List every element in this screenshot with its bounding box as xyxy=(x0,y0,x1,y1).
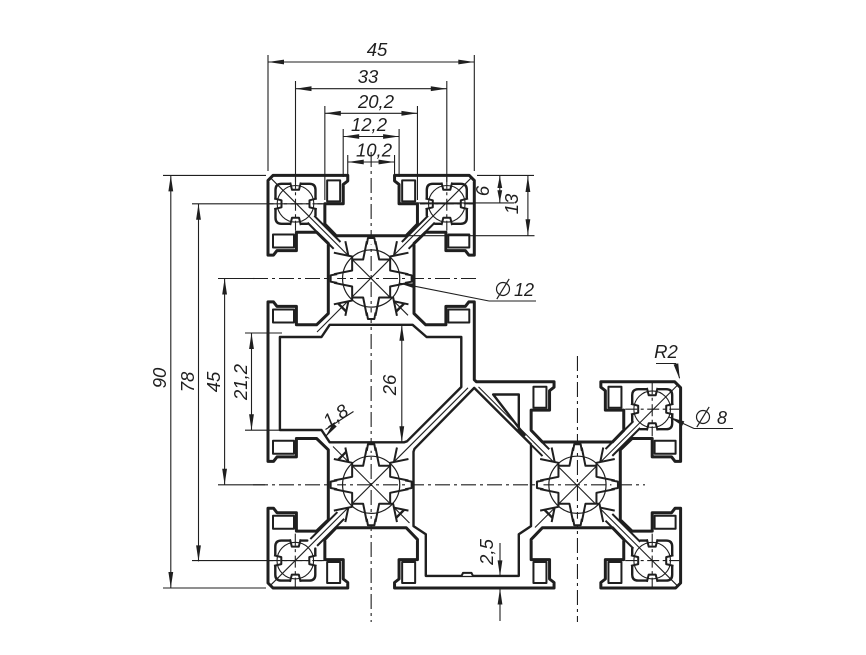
svg-text:12: 12 xyxy=(514,280,534,300)
svg-text:2,5: 2,5 xyxy=(476,538,497,565)
svg-text:33: 33 xyxy=(358,66,379,87)
svg-text:8: 8 xyxy=(717,408,727,428)
svg-text:6: 6 xyxy=(472,185,493,196)
svg-text:21,2: 21,2 xyxy=(230,363,251,401)
svg-text:20,2: 20,2 xyxy=(357,91,395,112)
svg-text:R2: R2 xyxy=(654,341,678,362)
svg-text:90: 90 xyxy=(149,367,170,388)
svg-text:10,2: 10,2 xyxy=(356,140,393,161)
svg-text:78: 78 xyxy=(177,371,198,392)
svg-text:12,2: 12,2 xyxy=(351,114,388,135)
svg-text:13: 13 xyxy=(501,193,522,214)
svg-text:26: 26 xyxy=(379,374,400,396)
svg-text:45: 45 xyxy=(203,371,224,392)
svg-text:45: 45 xyxy=(367,39,388,60)
